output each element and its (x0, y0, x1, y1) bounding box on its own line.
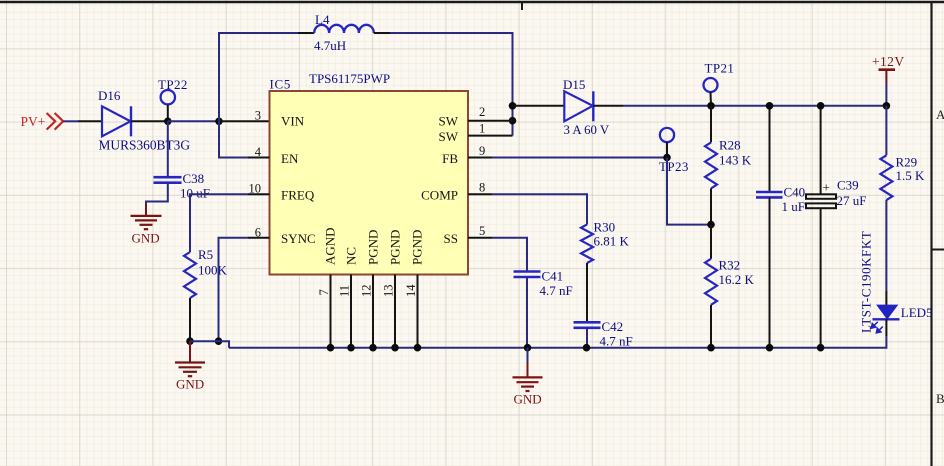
svg-text:+12V: +12V (872, 54, 904, 69)
junction R5 rail (186, 337, 194, 345)
svg-text:7: 7 (317, 289, 331, 295)
capacitor C40 (756, 106, 805, 348)
svg-text:D15: D15 (563, 77, 585, 92)
svg-text:4.7 nF: 4.7 nF (600, 334, 633, 349)
junction pin 13 rail (391, 344, 399, 352)
svg-text:9: 9 (479, 144, 485, 158)
svg-text:3 A 60 V: 3 A 60 V (564, 123, 610, 137)
svg-text:PGND: PGND (366, 230, 381, 265)
svg-text:COMP: COMP (421, 187, 458, 202)
pin 2 number (479, 105, 485, 119)
wire R29 to LED5 (885, 200, 887, 306)
wire R5 to rail (189, 298, 191, 341)
junction pin 14 rail (414, 344, 422, 352)
wire C41 to rail (526, 277, 528, 348)
svg-text:143 K: 143 K (719, 153, 752, 168)
wire D16 cathode to node (131, 120, 168, 122)
sheet border tick right (932, 249, 944, 251)
pin 3 number (255, 109, 261, 123)
pin 1 number (479, 121, 485, 135)
junction at TP22 node (164, 118, 172, 126)
svg-text:C40: C40 (784, 185, 806, 200)
svg-text:1 uF: 1 uF (782, 199, 805, 214)
pin 9 number (479, 144, 485, 158)
svg-text:4.7uH: 4.7uH (314, 38, 346, 53)
junction divider node (707, 221, 715, 229)
wire COMP to R30 (492, 194, 587, 224)
sheet border tick top (521, 2, 523, 10)
svg-text:D16: D16 (98, 88, 121, 103)
wire FREQ to R5 (190, 194, 248, 252)
capacitor C41 (514, 269, 573, 299)
pin 10 FREQ stub (248, 193, 270, 195)
junction C39 top (817, 102, 825, 110)
svg-text:8: 8 (479, 180, 485, 194)
pin 5 number (479, 224, 485, 238)
diode D15 (563, 77, 610, 137)
junction R32 rail (707, 344, 715, 352)
svg-text:2: 2 (479, 105, 485, 119)
capacitor C39 polarized (806, 106, 866, 348)
pin 10 number (249, 181, 262, 195)
svg-text:R32: R32 (719, 258, 741, 273)
svg-text:12: 12 (360, 285, 374, 298)
pin 1 SW stub (468, 135, 513, 137)
wire node to pin 3 VIN (219, 120, 270, 122)
svg-text:R28: R28 (719, 138, 741, 153)
svg-text:PV+: PV+ (21, 114, 46, 129)
svg-text:SS: SS (444, 231, 458, 246)
pin 13 number (382, 285, 396, 298)
svg-text:TP21: TP21 (705, 61, 735, 76)
pin 11 stub (350, 275, 352, 348)
svg-text:13: 13 (382, 285, 396, 298)
wire bottom rail (229, 347, 886, 349)
svg-text:14: 14 (404, 284, 418, 297)
svg-text:NC: NC (344, 247, 359, 265)
svg-text:16.2 K: 16.2 K (719, 272, 755, 287)
wire bottom rail left jog (190, 341, 229, 348)
svg-text:27 uF: 27 uF (837, 193, 867, 208)
LED LED5 (859, 231, 933, 333)
junction pin 12 rail (369, 344, 377, 352)
pin 7 stub (330, 275, 332, 348)
svg-text:C41: C41 (542, 269, 564, 284)
pin 7 number (317, 289, 331, 295)
wire FB to TP23 node (492, 157, 666, 159)
wire SS to C41 (492, 238, 527, 272)
wire SW node to D15 anode (513, 105, 565, 107)
svg-text:10: 10 (249, 181, 262, 195)
resistor R30 (581, 220, 630, 264)
wire SYNC to rail (219, 238, 249, 341)
capacitor C38 (154, 121, 210, 200)
pin 4 EN stub (248, 157, 270, 159)
svg-text:TPS61175PWP: TPS61175PWP (309, 71, 390, 86)
svg-text:R30: R30 (594, 220, 616, 235)
power port PV+ (21, 113, 64, 130)
pin 14 stub (417, 275, 419, 348)
test point TP21 (704, 61, 735, 106)
wire C42 to rail (586, 328, 588, 348)
wire D15 cathode lead (593, 105, 623, 107)
svg-text:C38: C38 (183, 171, 205, 186)
inductor L4 (314, 12, 374, 53)
svg-text:SYNC: SYNC (281, 231, 316, 246)
svg-text:11: 11 (338, 285, 352, 297)
svg-text:IC5: IC5 (270, 77, 292, 92)
pin 13 stub (394, 275, 396, 348)
svg-text:LED5: LED5 (901, 305, 933, 320)
resistor R32 (705, 225, 755, 348)
svg-text:R5: R5 (198, 247, 213, 262)
junction SYNC rail (215, 337, 223, 345)
IC5 TPS61175PWP (270, 71, 469, 275)
svg-text:EN: EN (281, 151, 299, 166)
svg-text:PGND: PGND (388, 230, 403, 265)
svg-text:C42: C42 (602, 319, 624, 334)
pin 12 number (360, 285, 374, 298)
sheet border top (0, 1, 944, 3)
svg-text:100K: 100K (198, 263, 228, 278)
svg-text:1: 1 (479, 121, 485, 135)
wire +12V rail (623, 105, 886, 107)
pin 5 SS stub (468, 237, 492, 239)
power +12V (872, 54, 904, 106)
junction pin 11 rail (347, 344, 355, 352)
svg-text:SW: SW (439, 129, 459, 144)
svg-text:6.81 K: 6.81 K (594, 234, 630, 249)
junction C39 rail (817, 344, 825, 352)
svg-text:FB: FB (442, 151, 458, 166)
wire inductor left lead (298, 32, 314, 34)
ground GND at rail (513, 348, 543, 407)
wire LED5 to rail (885, 319, 887, 348)
svg-text:TP23: TP23 (659, 159, 689, 174)
test point TP22 (158, 77, 188, 121)
resistor R5 (184, 247, 228, 298)
pin 8 COMP stub (468, 193, 492, 195)
pin 2 SW stub (468, 120, 513, 122)
ground GND at R5 (175, 341, 205, 391)
wire EN from node (219, 121, 248, 157)
junction +12V rail (883, 102, 891, 110)
sheet border right (930, 2, 932, 466)
svg-text:FREQ: FREQ (281, 187, 315, 202)
junction C40 top (766, 102, 774, 110)
wire PV+ to D16 anode (63, 120, 102, 122)
wire top rail to SW pins (390, 33, 513, 136)
junction TP21 rail (707, 102, 715, 110)
svg-text:SW: SW (439, 114, 459, 129)
junction SW wire at D15 branch (509, 102, 517, 110)
svg-text:5: 5 (479, 224, 485, 238)
svg-text:AGND: AGND (323, 227, 338, 265)
junction at EN node (215, 118, 223, 126)
resistor R28 (705, 106, 752, 225)
pin 14 number (404, 284, 418, 297)
wire node to node EN (168, 120, 219, 122)
svg-text:L4: L4 (315, 12, 330, 27)
svg-text:GND: GND (514, 392, 542, 407)
junction C42 rail (583, 344, 591, 352)
pin 6 number (255, 225, 261, 239)
svg-text:+: + (823, 180, 830, 195)
pin 12 stub (372, 275, 374, 348)
svg-text:LTST-C190KFKT: LTST-C190KFKT (859, 231, 874, 333)
svg-text:B: B (936, 391, 944, 406)
pin 11 number (338, 285, 352, 297)
junction pin 7 rail (327, 344, 335, 352)
wire inductor right lead (374, 32, 390, 34)
svg-text:3: 3 (255, 109, 261, 123)
junction C40 rail (766, 344, 774, 352)
zone letter A (936, 107, 944, 122)
svg-text:GND: GND (132, 231, 160, 246)
wire node up to top rail (219, 33, 298, 121)
svg-text:10 uF: 10 uF (180, 186, 210, 201)
wire R30 to C42 (586, 263, 588, 322)
wire FB node to divider (667, 158, 711, 225)
capacitor C42 (574, 319, 633, 349)
svg-text:1.5 K: 1.5 K (896, 168, 926, 183)
diode D16 (98, 88, 190, 153)
svg-text:TP22: TP22 (158, 77, 188, 92)
ground GND at C38 (131, 204, 162, 246)
pin 6 SYNC stub (248, 237, 270, 239)
pin 8 number (479, 180, 485, 194)
svg-text:VIN: VIN (281, 114, 305, 129)
svg-text:MURS360BT3G: MURS360BT3G (99, 138, 191, 153)
test point TP23 (659, 128, 689, 174)
svg-text:PGND: PGND (410, 230, 425, 265)
svg-text:4.7 nF: 4.7 nF (540, 283, 573, 298)
pin 4 number (255, 145, 262, 159)
svg-text:GND: GND (176, 377, 204, 392)
resistor R29 (880, 106, 925, 200)
junction C41 rail (524, 344, 532, 352)
svg-text:A: A (936, 107, 944, 122)
svg-text:C39: C39 (837, 178, 859, 193)
junction SW pin 2 (509, 117, 517, 125)
wire C38 to ground (146, 183, 168, 206)
pin 9 FB stub (468, 157, 492, 159)
zone letter B (936, 391, 944, 406)
junction FB node (663, 154, 671, 162)
